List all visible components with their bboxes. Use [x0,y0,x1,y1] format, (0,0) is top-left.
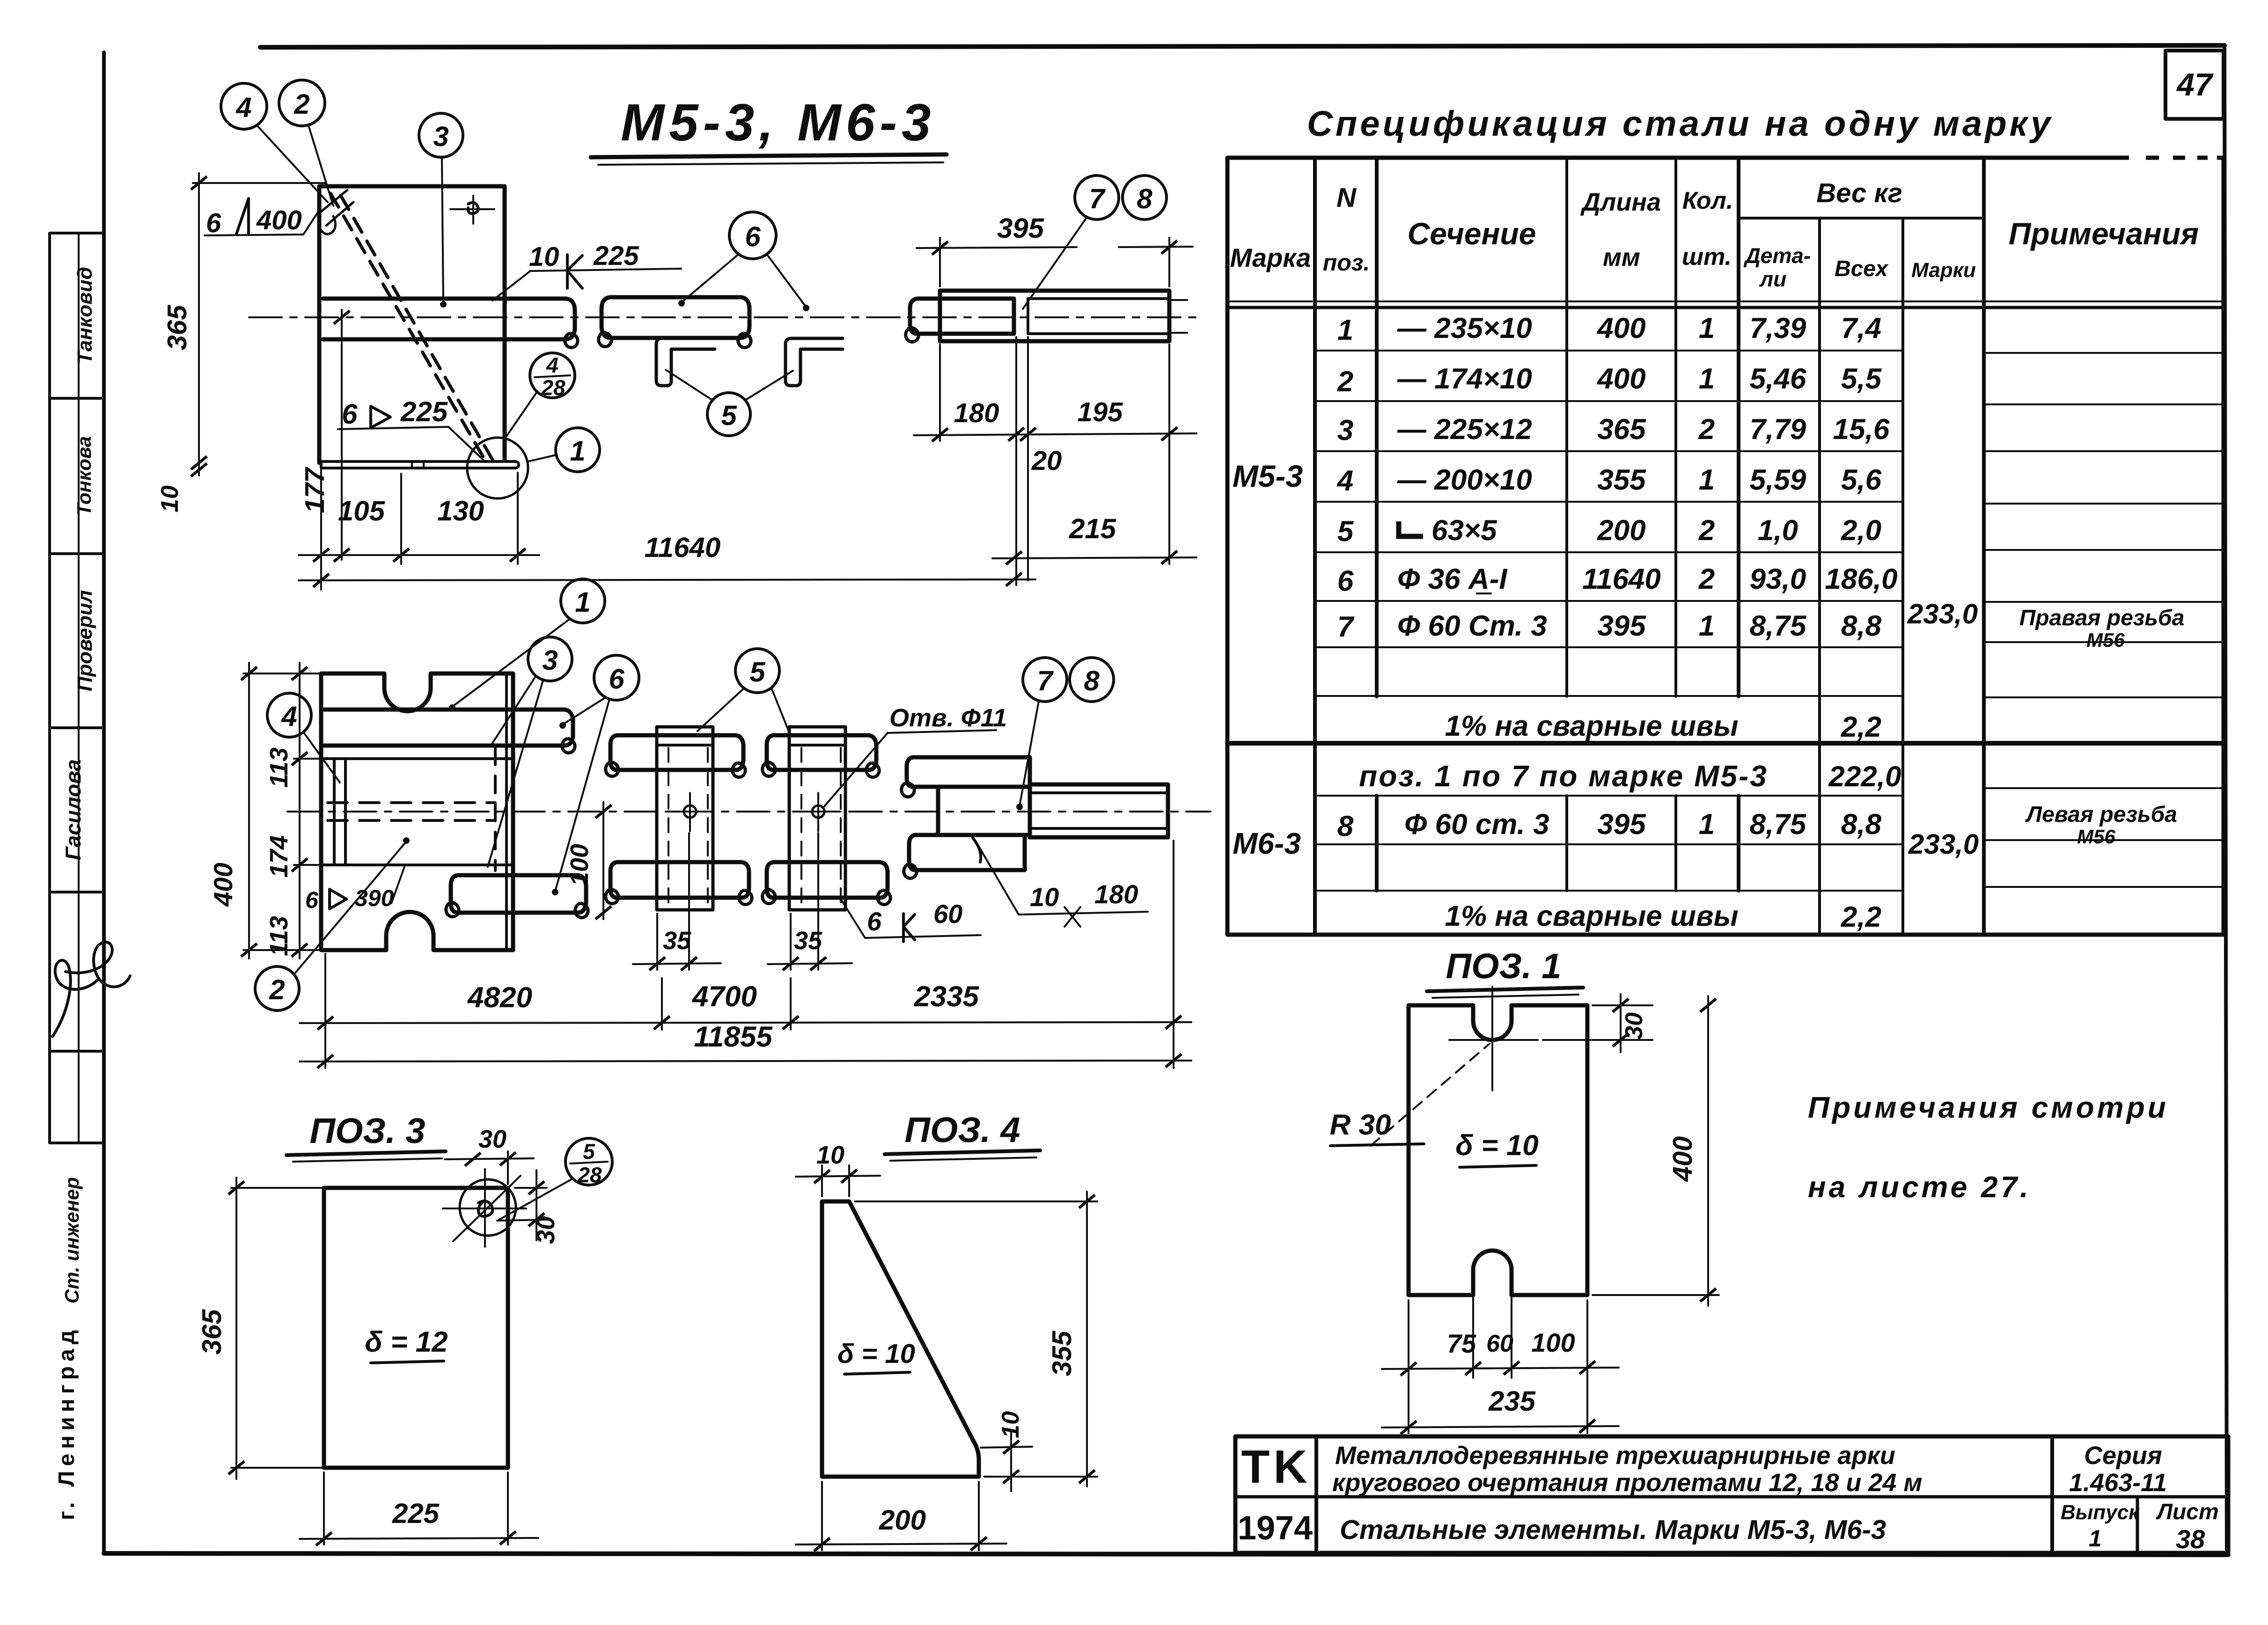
spec table row lines M5-3 [1315,351,2224,697]
svg-text:2: 2 [1698,563,1715,595]
balloon 6 plan [594,655,639,700]
plate poz.3 front [319,186,505,463]
svg-text:28: 28 [541,375,565,400]
spec table vertical Всех/Марки [1901,218,1904,935]
stamp column outer box [50,233,104,1143]
svg-text:365: 365 [197,1309,227,1355]
spec table vertical Детали/Всех [1818,218,1821,935]
svg-text:на листе 27.: на листе 27. [1808,1170,2031,1204]
svg-text:11640: 11640 [645,532,720,563]
svg-text:1: 1 [570,435,585,467]
svg-text:174: 174 [265,835,293,878]
svg-text:6: 6 [609,663,624,695]
spec table vertical Длина/Кол [1674,158,1677,696]
svg-text:400: 400 [1667,1136,1698,1182]
poz.1 notch centrelines [1491,987,1493,1091]
sheet frame top border [260,45,2224,47]
svg-text:ПОЗ. 3: ПОЗ. 3 [309,1111,425,1151]
dim 100 plan [602,802,604,919]
svg-text:6: 6 [745,221,761,252]
plate poz.2 hidden diagonal dashed [330,193,483,457]
spec table row lines M6-3 [1315,788,2224,891]
svg-text:30: 30 [478,1125,506,1153]
dim line 4820 4700 2335 [300,1022,1191,1023]
svg-text:113: 113 [265,747,293,788]
stamp row line 2 [50,552,104,555]
plate poz.3 edge lines plan [322,757,512,760]
svg-text:2: 2 [269,974,285,1005]
svg-text:28: 28 [577,1163,602,1187]
svg-text:2,0: 2,0 [1841,514,1881,547]
balloon 8 plan [1070,658,1114,702]
svg-text:233,0: 233,0 [1908,828,1979,860]
spec table vertical Сечение/Длина [1565,158,1568,696]
svg-text:10: 10 [816,1141,844,1169]
svg-text:Выпуск: Выпуск [2061,1501,2140,1524]
svg-text:5: 5 [721,400,737,431]
svg-text:7,39: 7,39 [1750,312,1806,344]
detail circle on bar end [467,438,528,498]
hole in plate poz.3 [450,208,494,210]
poz.3 detail circle [460,1179,516,1236]
svg-text:1% на сварные швы: 1% на сварные швы [1445,710,1738,742]
svg-text:Марка: Марка [1230,243,1311,272]
svg-text:225: 225 [593,241,639,271]
hole in plate 5B [812,805,824,818]
svg-text:— 174×10: — 174×10 [1397,363,1532,395]
transition curve on lower rod [973,838,981,862]
svg-text:10: 10 [529,242,559,272]
svg-text:38: 38 [2176,1524,2205,1554]
svg-text:75: 75 [1447,1329,1476,1358]
plate poz.1 right edge doubled [505,675,508,948]
svg-text:Всех: Всех [1835,256,1889,281]
svg-text:ПОЗ. 1: ПОЗ. 1 [1446,946,1561,986]
rod poz.6 segment 1 front [323,299,575,339]
svg-text:355: 355 [1047,1331,1077,1376]
svg-text:шт.: шт. [1682,243,1732,271]
stamp row line 1 [50,397,104,400]
svg-text:Примечания: Примечания [2009,216,2199,251]
svg-text:4: 4 [281,701,297,732]
svg-text:1: 1 [1337,314,1353,346]
spec table vertical поз/Сечение [1375,158,1379,696]
svg-text:Тонкова: Тонкова [73,436,95,516]
balloon 5 plan [735,649,779,693]
svg-text:Серия: Серия [2084,1442,2162,1470]
balloon 1 plan [561,579,605,623]
svg-text:1: 1 [1699,312,1715,344]
svg-text:35: 35 [663,927,691,955]
svg-text:63×5: 63×5 [1431,514,1497,547]
svg-text:177: 177 [300,467,330,513]
dim line 11855 [300,1061,1191,1061]
svg-text:мм: мм [1603,243,1640,271]
dim 105 130 extension lines [320,469,322,590]
svg-text:2: 2 [1337,366,1353,398]
dim 113 174 113 inner line [299,663,301,959]
svg-text:5,46: 5,46 [1750,363,1806,395]
balloon 4 plan [267,693,311,737]
rod poz.6 segment 2 front [602,297,749,338]
svg-text:Дета-: Дета- [1743,243,1811,268]
svg-text:60: 60 [1486,1330,1513,1357]
title block TK cell divider [1314,1436,1318,1553]
spec table Вес кг sub-header line [1739,217,1984,220]
spec table vertical Марка/поз [1313,158,1317,935]
svg-text:5: 5 [583,1139,595,1164]
svg-text:11640: 11640 [1582,563,1661,595]
title block sheet cell divider [2136,1497,2139,1553]
svg-text:7,4: 7,4 [1841,312,1881,344]
svg-text:1% на сварные швы: 1% на сварные швы [1445,900,1738,932]
svg-text:100: 100 [565,844,594,886]
svg-text:Правая резьба: Правая резьба [2019,606,2185,630]
svg-text:365: 365 [162,305,192,351]
svg-text:δ = 10: δ = 10 [1455,1129,1538,1162]
svg-text:8: 8 [1084,665,1100,696]
svg-text:Ф 36 А-I: Ф 36 А-I [1397,563,1508,595]
poz.1 dim 30 top right [1593,1004,1652,1006]
balloon 7 plan [1023,658,1067,702]
dim 180 195 20 extensions [939,344,941,441]
poz.3 corner hole [478,1201,492,1216]
plate poz.5 A plan [657,727,713,910]
svg-text:δ = 10: δ = 10 [837,1339,915,1369]
poz.1 dim 400 right [1593,1294,1719,1296]
rod 8 thread stubs beyond sleeve [1169,299,1187,301]
rod poz.6 upper plan [324,710,573,746]
svg-text:Стальные элементы. Марки М: Стальные элементы. Марки М5-3, М6-3 [1340,1515,1886,1545]
svg-text:8,8: 8,8 [1841,610,1882,642]
svg-text:93,0: 93,0 [1750,563,1806,595]
svg-text:233,0: 233,0 [1907,598,1978,630]
svg-text:— 200×10: — 200×10 [1397,464,1532,496]
svg-text:35: 35 [794,927,822,955]
plate poz.5 B plan [789,727,845,910]
svg-text:Спецификация стали на одну: Спецификация стали на одну марку [1307,104,2053,144]
balloon 4 top [221,83,267,129]
svg-text:1: 1 [1699,363,1715,395]
lower rod into joint plan [909,835,1025,870]
dim 35 plate B [790,914,792,970]
svg-text:225: 225 [392,1498,440,1529]
svg-text:Ф 60 ст. 3: Ф 60 ст. 3 [1404,808,1549,841]
balloon 7 top [1075,176,1119,220]
svg-text:4: 4 [546,353,558,377]
svg-text:Танковид: Танковид [73,267,96,364]
balloon 6 top [729,212,776,259]
svg-text:поз. 1 по 7 по марке М5-3: поз. 1 по 7 по марке М5-3 [1359,759,1768,793]
svg-text:ПОЗ. 4: ПОЗ. 4 [904,1110,1020,1150]
poz.4 dim 355 right [855,1200,1097,1202]
svg-text:Металлодеревянные трехшарнирн: Металлодеревянные трехшарнирные арки [1335,1442,1895,1470]
svg-text:8,75: 8,75 [1750,808,1807,841]
svg-text:47: 47 [2176,67,2214,102]
svg-text:200: 200 [879,1504,926,1536]
svg-text:222,0: 222,0 [1828,761,1901,793]
svg-text:1.463-11: 1.463-11 [2069,1469,2167,1497]
svg-text:М56: М56 [2086,629,2125,651]
svg-text:3: 3 [1337,414,1353,447]
svg-text:7,79: 7,79 [1750,413,1806,446]
svg-text:2: 2 [1698,514,1715,547]
balloon 1 top [556,428,600,472]
svg-text:5: 5 [1337,515,1354,548]
svg-text:105: 105 [338,495,386,527]
dim line 180 195 [914,433,1196,435]
page number box [2165,51,2224,119]
poz.1 R30 dashed leader [1371,1044,1490,1146]
dim 400 outer line [248,663,250,959]
hole in plate 5A [684,805,696,818]
svg-text:7: 7 [1089,183,1106,214]
svg-text:60: 60 [933,899,962,929]
title block row divider [1235,1495,2228,1499]
svg-text:8: 8 [1137,183,1152,214]
svg-text:6: 6 [867,907,882,936]
underline of A-I mark row6 [1477,593,1491,594]
svg-text:1,0: 1,0 [1758,514,1798,547]
svg-text:2335: 2335 [914,981,979,1013]
svg-text:8,75: 8,75 [1750,610,1807,642]
svg-text:Проверил: Проверил [73,590,96,691]
svg-text:— 235×10: — 235×10 [1397,312,1532,344]
svg-text:400: 400 [208,863,238,907]
svg-text:R 30: R 30 [1330,1109,1391,1141]
angle bracket poz.5 A front [656,338,715,386]
poz.1 plate outline with notches [1409,1005,1587,1295]
svg-text:Ст. инженер: Ст. инженер [61,1177,83,1303]
svg-text:400: 400 [256,205,302,235]
svg-text:5: 5 [749,656,766,688]
svg-text:4700: 4700 [691,981,757,1013]
svg-text:10: 10 [156,485,183,512]
svg-text:Лист: Лист [2156,1500,2219,1524]
rod segments at plate 5B [767,735,876,770]
svg-text:215: 215 [1069,513,1117,544]
spec table section divider M5-3/M6-3 [1227,741,2224,746]
svg-text:400: 400 [1596,363,1645,395]
svg-text:— 225×12: — 225×12 [1397,413,1532,446]
svg-text:М5-3: М5-3 [1233,459,1303,493]
svg-text:395: 395 [1597,808,1646,841]
rod poz.6 lower plan [451,875,586,913]
svg-text:20: 20 [1031,446,1062,476]
poz.4 dim 200 bottom [821,1482,823,1550]
sheet frame left border [102,52,106,1553]
balloon 5 top [707,393,750,436]
dim 365 left of top drawing [193,182,325,184]
svg-text:11855: 11855 [694,1021,773,1053]
flat bar poz.1 front [321,461,519,468]
svg-text:6: 6 [206,208,221,238]
svg-text:4: 4 [235,92,251,123]
svg-text:10: 10 [1030,882,1059,912]
stamp row line 3 [50,726,104,729]
svg-text:186,0: 186,0 [1825,563,1897,595]
poz.3 balloon 5/28 [565,1138,612,1185]
svg-text:Отв. Ф11: Отв. Ф11 [889,704,1007,732]
svg-text:Примечания смотри: Примечания смотри [1808,1091,2169,1124]
balloon 8 top [1123,176,1167,220]
rod segments at plate 5A [610,735,743,770]
svg-text:200: 200 [1597,514,1645,547]
svg-text:поз.: поз. [1323,249,1370,276]
spec table header double line [1227,300,2224,302]
rod 7 body plan [938,787,1030,835]
plate poz.1 plan with notches [321,673,513,950]
svg-text:10: 10 [997,1411,1024,1438]
upper rod into joint plan [907,757,1030,787]
svg-text:1: 1 [1699,610,1715,642]
poz.4 dim 10 lower right [981,1447,1032,1448]
poz.3 plate outline [324,1188,508,1468]
svg-text:395: 395 [1597,610,1646,642]
svg-text:7: 7 [1337,611,1355,643]
svg-text:δ = 12: δ = 12 [365,1326,448,1358]
dim 395 sleeve [939,238,941,286]
svg-text:235: 235 [1488,1385,1536,1417]
dim line 11640 [299,579,1035,580]
svg-text:TK: TK [1241,1441,1311,1493]
poz.3 dim 225 [323,1472,325,1544]
table data rows M5-3 [1336,312,1898,643]
stamp signature [52,942,130,1037]
angle bracket poz.5 B front [785,338,843,386]
coupling sleeve poz.7 front [940,291,1169,341]
dim line 215 [992,557,1196,558]
coupling sleeve plan [1030,784,1168,837]
svg-text:1: 1 [2089,1525,2102,1552]
stamp column divider [78,233,80,1143]
plate poz.4 edge lines plan [333,759,336,865]
svg-text:5,59: 5,59 [1750,464,1806,496]
dim 10 left bottom [191,463,207,476]
svg-text:15,6: 15,6 [1833,413,1890,446]
centre axis plan [287,811,1211,812]
svg-text:ли: ли [1759,267,1787,291]
svg-text:М5-3, М6-3: М5-3, М6-3 [621,93,936,152]
svg-text:N: N [1336,183,1357,213]
svg-text:3: 3 [542,644,558,676]
svg-text:8: 8 [1337,810,1354,842]
poz.3 dim 30 vertical [515,1187,547,1189]
svg-text:Кол.: Кол. [1682,187,1733,214]
svg-text:225: 225 [400,396,448,427]
drawing title underline [591,154,947,157]
svg-text:3: 3 [433,121,448,152]
svg-text:Гасилова: Гасилова [61,759,85,860]
rod poz.6 segment 3 front [910,299,1014,334]
svg-text:6: 6 [305,887,319,913]
svg-text:6: 6 [1337,565,1354,597]
title block series cell divider [2050,1436,2054,1553]
rod 8 inside sleeve front [1014,299,1169,334]
svg-text:Левая резьба: Левая резьба [2025,802,2177,827]
svg-text:395: 395 [997,212,1045,244]
sheet frame right border [2224,45,2227,1555]
svg-text:Ф 60 Ст. 3: Ф 60 Ст. 3 [1397,610,1547,642]
svg-text:М56: М56 [2077,826,2115,848]
svg-text:195: 195 [1078,397,1123,427]
scan-faded dashes on table top edge [2129,154,2217,161]
balloon 3 plan [528,637,572,681]
spec table outer box [1227,158,2224,935]
svg-text:г. Ленинград: г. Ленинград [54,1325,79,1520]
svg-text:Длина: Длина [1580,188,1661,216]
svg-text:1974: 1974 [1238,1509,1313,1547]
svg-text:5,6: 5,6 [1841,464,1882,496]
svg-text:М6-3: М6-3 [1233,827,1301,860]
dim 35 plate A [656,914,658,970]
svg-text:30: 30 [1621,1012,1648,1039]
poz.4 plate outline [822,1201,979,1477]
stamp row line 4 [50,891,104,893]
svg-text:Вес кг: Вес кг [1816,178,1902,208]
svg-text:8,8: 8,8 [1841,808,1882,841]
svg-text:кругового очертания пролетами: кругового очертания пролетами 12, 18 и 2… [1332,1469,1922,1497]
svg-text:1: 1 [1699,464,1715,496]
centre axis top drawing [249,316,1198,318]
title block outer box [1235,1436,2228,1553]
svg-text:1: 1 [575,586,590,618]
svg-text:390: 390 [355,885,394,911]
svg-text:180: 180 [954,398,999,428]
row 8 [1337,808,1882,842]
poz.3 dim 30 horizontal [507,1151,509,1184]
svg-text:365: 365 [1597,413,1646,446]
svg-text:Сечение: Сечение [1408,216,1536,251]
svg-text:180: 180 [1094,879,1138,909]
stamp row line 5 [50,1050,104,1053]
svg-text:1: 1 [1699,808,1715,841]
spec table vertical Кол/Вес [1737,158,1740,696]
extension lines bottom plan [324,954,326,1068]
svg-text:5,5: 5,5 [1841,363,1882,395]
spec table vertical Марки/Примечания [1982,158,1986,935]
plate poz.2 hidden edges dashed [328,801,495,804]
svg-text:30: 30 [532,1216,560,1244]
balloon 4/28 fraction [530,353,575,398]
svg-text:130: 130 [437,495,484,527]
poz.4 dim 10 top [821,1165,823,1196]
balloon 2 plan [255,966,299,1010]
svg-text:400: 400 [1596,312,1645,344]
balloon 2 top [279,80,325,126]
svg-text:7: 7 [1037,665,1054,696]
dim line 105 130 [299,554,539,556]
svg-text:Марки: Марки [1911,259,1976,282]
svg-text:100: 100 [1531,1328,1575,1357]
dim 177 [341,310,343,560]
svg-text:2,2: 2,2 [1841,711,1881,743]
svg-text:2,2: 2,2 [1841,901,1881,933]
poz.1 dims 75 60 100 [1408,1300,1409,1433]
extension lines left plan [243,673,323,674]
sheet frame bottom border [104,1553,2228,1555]
svg-text:355: 355 [1597,464,1646,496]
svg-text:4: 4 [1336,465,1353,497]
svg-text:4820: 4820 [467,981,532,1014]
poz.1 dim 235 [1382,1426,1619,1427]
svg-text:6: 6 [342,398,358,430]
poz.3 dim 365 [231,1187,328,1189]
svg-text:2: 2 [1698,413,1715,446]
balloon 3 top [419,113,463,157]
weld seam hatch at plate corner [321,190,353,234]
svg-text:2: 2 [294,88,309,120]
